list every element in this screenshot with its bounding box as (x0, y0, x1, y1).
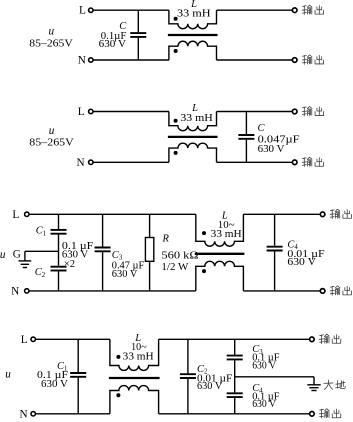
svg-text:N: N (77, 157, 85, 169)
output top (circuit 2): label 输出 (302, 107, 312, 116)
wire choke to output top (circuit 4) (159, 338, 310, 340)
capacitor C3 (circuit 3) (102, 214, 104, 246)
output top (circuit 3): terminal (320, 212, 325, 217)
output bottom (circuit 2): label 输出 (302, 157, 312, 166)
choke L1 (circuit 1): core (168, 34, 218, 36)
terminal L (circuit 3) (25, 212, 29, 216)
wire L to choke (circuit 1) (93, 9, 169, 11)
capacitor C4 (circuit 3) (274, 214, 276, 246)
svg-text:85–265V: 85–265V (29, 138, 74, 149)
terminal L (circuit 2) (89, 109, 93, 113)
choke L3 (circuit 3): polarity dot (bottom) (202, 269, 206, 273)
output bottom (circuit 4): label 输出 (319, 409, 329, 418)
output top (circuit 1): terminal (292, 8, 297, 13)
choke L4 (circuit 4): core (109, 377, 160, 379)
svg-text:33 mH: 33 mH (180, 113, 213, 124)
choke L3 (circuit 3): winding 2 (bottom) (196, 261, 244, 291)
choke L1 (circuit 1): polarity dot (bottom) (174, 49, 178, 53)
svg-text:630 V: 630 V (99, 39, 127, 50)
svg-text:N: N (11, 286, 19, 298)
ground symbol G (circuit 3) (24, 251, 26, 261)
svg-text:560 kΩ: 560 kΩ (161, 250, 198, 261)
terminal N (circuit 1) (89, 58, 93, 62)
capacitor C2 (circuit 4) (187, 339, 189, 373)
wire L to choke (circuit 4) (36, 338, 110, 340)
svg-text:33 mH: 33 mH (177, 8, 211, 19)
wire to earth (circuit 4) (235, 376, 314, 378)
output top (circuit 2): terminal (292, 109, 297, 114)
wire L to choke (circuit 2) (93, 111, 169, 113)
capacitor C4 (circuit 4) (234, 377, 236, 393)
terminal L (circuit 1) (89, 8, 93, 12)
capacitor C1 (circuit 4) (77, 339, 79, 372)
wire bottom rail right (circuit 3) (243, 290, 320, 292)
choke L1 (circuit 1): winding 2 (bottom) (169, 41, 217, 60)
wire N to choke (circuit 4) (36, 413, 110, 415)
svg-text:85–265V: 85–265V (29, 39, 73, 50)
svg-text:R: R (161, 234, 169, 245)
svg-text:u: u (49, 26, 55, 38)
choke L2 (circuit 2): winding 2 (bottom) (169, 143, 217, 162)
svg-text:630 V: 630 V (112, 269, 138, 280)
output top (circuit 4): terminal (310, 337, 315, 342)
capacitor C3 (circuit 4) (234, 339, 236, 354)
output bottom (circuit 1): terminal (292, 58, 297, 63)
svg-text:N: N (20, 409, 28, 421)
wire choke to output bottom (circuit 2) (217, 161, 293, 163)
choke L1 (circuit 1): polarity dot (top) (174, 17, 178, 21)
wire N to choke (circuit 1) (93, 59, 169, 61)
choke L2 (circuit 2): core (168, 136, 218, 138)
capacitor C (circuit 1) (137, 10, 139, 32)
choke L3 (circuit 3): winding 1 (top) (196, 214, 244, 246)
wire top rail right (circuit 3) (243, 213, 320, 215)
choke L4 (circuit 4): winding 2 (bottom) (110, 386, 159, 414)
svg-text:630 V: 630 V (252, 360, 276, 371)
wire bottom rail left (circuit 3) (29, 290, 196, 292)
output top (circuit 4): label 输出 (319, 334, 329, 343)
wire choke to output bottom (circuit 1) (217, 59, 293, 61)
choke L3 (circuit 3): polarity dot (top) (202, 231, 206, 235)
output top (circuit 3): label 输出 (330, 209, 340, 218)
svg-text:L: L (12, 209, 19, 221)
svg-text:u: u (0, 249, 6, 261)
choke L3 (circuit 3): core (195, 253, 245, 255)
wire choke to output top (circuit 2) (217, 111, 293, 113)
choke L4 (circuit 4): polarity dot (bottom) (116, 393, 120, 397)
terminal N (circuit 4) (31, 412, 35, 416)
capacitor C2 (circuit 3) (58, 251, 60, 265)
output bottom (circuit 1): label 输出 (302, 55, 312, 64)
svg-text:C: C (258, 123, 266, 134)
svg-text:u: u (5, 369, 11, 381)
choke L2 (circuit 2): polarity dot (bottom) (174, 151, 178, 155)
svg-text:G: G (13, 249, 21, 261)
output bottom (circuit 3): terminal (320, 289, 325, 294)
svg-text:1/2 W: 1/2 W (161, 262, 188, 273)
terminal L (circuit 4) (31, 337, 35, 341)
output top (circuit 1): label 输出 (302, 5, 312, 14)
svg-text:33 mH: 33 mH (211, 229, 242, 240)
terminal N (circuit 3) (25, 289, 29, 293)
svg-text:630 V: 630 V (41, 379, 68, 390)
choke L2 (circuit 2): polarity dot (top) (174, 119, 178, 123)
choke L4 (circuit 4): winding 1 (top) (110, 339, 159, 370)
terminal N (circuit 2) (89, 160, 93, 164)
svg-text:L: L (78, 106, 85, 118)
output bottom (circuit 3): label 输出 (330, 286, 340, 295)
svg-text:N: N (78, 55, 86, 67)
capacitor C1 (circuit 3) (58, 214, 60, 229)
choke L1 (circuit 1): winding 1 (top) (169, 10, 217, 29)
wire choke to output bottom (circuit 4) (159, 413, 310, 415)
wire ground tap (circuit 3) (25, 250, 59, 252)
svg-text:L: L (79, 5, 86, 17)
output bottom (circuit 4): terminal (310, 412, 315, 417)
svg-text:×2: ×2 (64, 259, 75, 270)
wire top rail left (circuit 3) (29, 213, 196, 215)
earth ground symbol (circuit 4) (313, 377, 315, 385)
capacitor C (circuit 2) (245, 112, 247, 135)
wire choke to output top (circuit 1) (217, 9, 293, 11)
label 大地 (earth) (circuit 4) (324, 380, 333, 389)
svg-text:630 V: 630 V (287, 257, 316, 268)
choke L4 (circuit 4): polarity dot (top) (116, 355, 120, 359)
choke L2 (circuit 2): winding 1 (top) (169, 112, 217, 131)
resistor R (circuit 3) (149, 214, 151, 237)
svg-text:630 V: 630 V (252, 399, 276, 410)
output bottom (circuit 2): terminal (292, 160, 297, 165)
svg-text:33 mH: 33 mH (123, 351, 154, 362)
svg-text:L: L (21, 334, 28, 346)
svg-text:630 V: 630 V (197, 381, 223, 392)
svg-text:630 V: 630 V (258, 144, 285, 155)
wire N to choke (circuit 2) (93, 161, 169, 163)
svg-text:u: u (49, 125, 55, 137)
